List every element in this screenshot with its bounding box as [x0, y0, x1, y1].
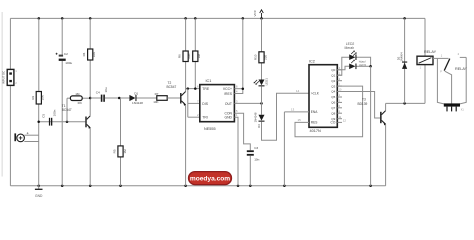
junction bottom rail x238: [237, 185, 240, 188]
svg-text:Q6: Q6: [331, 101, 335, 105]
svg-text:Q0: Q0: [331, 68, 335, 72]
wire contact common P: [445, 71, 452, 104]
diode D2 1N4004: [396, 18, 407, 103]
wire R11 branch: [194, 18, 196, 88]
wire R2 branch: [38, 18, 40, 185]
svg-text:Q5: Q5: [331, 95, 335, 99]
svg-text:1N4004: 1N4004: [400, 52, 404, 62]
wire Q1 to LED2: [337, 57, 349, 75]
op-amp IC2 4017N decade counter: [309, 59, 337, 133]
wire OUT pin3: [234, 102, 261, 104]
op-amp IC1 NE555 timer: [197, 79, 238, 131]
svg-text:IC1: IC1: [206, 79, 212, 83]
svg-text:D3: D3: [257, 124, 261, 128]
wire signal collector to C4: [90, 97, 101, 99]
svg-text:BD139: BD139: [358, 102, 368, 106]
svg-text:R3: R3: [78, 101, 82, 105]
junction bottom rail x38.7: [37, 185, 40, 188]
svg-text:10K: 10K: [92, 52, 96, 57]
junction bottom rail x185.6: [184, 185, 187, 188]
wire D3 to CLK loop: [262, 93, 310, 140]
transistor T2 BC547: [167, 81, 186, 186]
LED LED2 Merah: [345, 42, 357, 60]
node VCC8 junction: [242, 87, 245, 90]
svg-text:10K: 10K: [153, 100, 158, 104]
node OUT junction: [260, 102, 263, 105]
resistor R11 1M: [193, 51, 201, 62]
junction bottom rail x370.6: [369, 185, 372, 188]
wire LED cathodes to ground: [370, 66, 372, 186]
wire VCC+ pin8: [234, 18, 242, 88]
wire T1 base net: [39, 121, 86, 123]
wire TRE net: [186, 88, 200, 90]
wire /RES pin4 wrap: [234, 89, 242, 94]
svg-text:Merah: Merah: [345, 46, 355, 50]
node base junction A: [37, 120, 68, 123]
svg-text:1N4148: 1N4148: [132, 101, 143, 105]
wire T3 collector to relay: [386, 102, 425, 104]
svg-text:NE555: NE555: [204, 127, 216, 131]
svg-text:C4: C4: [96, 90, 100, 94]
capacitor C4 10u: [96, 87, 108, 102]
wire mic top pin: [24, 134, 38, 136]
svg-text:INPUT DC: INPUT DC: [2, 71, 6, 84]
svg-text:BC547: BC547: [62, 108, 72, 112]
junction top rail x195.3: [194, 17, 197, 20]
svg-text:DIS: DIS: [202, 102, 208, 106]
svg-text:Q2: Q2: [331, 79, 335, 83]
svg-text:RELAY: RELAY: [424, 50, 437, 54]
wire ENA pin13: [284, 107, 309, 185]
wire Q0 to LED3: [337, 66, 349, 70]
svg-text:Q7: Q7: [331, 106, 335, 110]
wire LED1 to OUT: [261, 86, 263, 103]
junction bottom rail x62.2: [61, 185, 64, 188]
wire CON pin5 to C3: [234, 113, 250, 150]
svg-text:10n: 10n: [254, 157, 259, 161]
wire IC2 output pin stubs: [337, 67, 346, 123]
wire LED3 cathode: [357, 65, 371, 67]
svg-text:D1: D1: [134, 91, 138, 95]
capacitor C5 100n: [42, 109, 57, 125]
svg-text:R10: R10: [253, 54, 257, 60]
decor left border line: [1, 12, 3, 177]
svg-text:Q4: Q4: [331, 90, 335, 94]
wire TRI-DIS tie: [188, 89, 200, 118]
capacitor C3 10n: [247, 146, 260, 161]
svg-text:15: 15: [298, 118, 302, 122]
svg-text:/RES: /RES: [224, 92, 233, 96]
transistor T3 BD139: [358, 98, 387, 186]
resistor R7 10K: [153, 92, 167, 104]
resistor R3 1M: [67, 92, 90, 122]
svg-text:12: 12: [343, 119, 347, 123]
power VCC symbol: [253, 9, 263, 18]
wire Q4 to T3 base: [337, 92, 380, 119]
junction top rail x261.5: [260, 17, 263, 20]
svg-text:10u: 10u: [104, 87, 108, 92]
ground GND symbol: [35, 186, 43, 198]
relay K1 contact SPDT: [433, 52, 468, 73]
node LED cathode junction: [369, 65, 372, 68]
svg-text:>CLK: >CLK: [311, 92, 320, 96]
junction top rail x185.6: [184, 17, 187, 20]
svg-text:T3: T3: [362, 98, 366, 102]
svg-text:R2: R2: [31, 95, 35, 99]
junction top rail x404.6: [403, 17, 406, 20]
junction top rail x242.8: [242, 17, 245, 20]
resistor R10 220: [253, 52, 267, 63]
svg-text:RES: RES: [311, 121, 318, 125]
svg-text:1M: 1M: [123, 149, 127, 154]
junction bottom rail x90.2: [89, 185, 92, 188]
LED LED1: [254, 78, 269, 87]
svg-text:Q1: Q1: [331, 73, 335, 77]
svg-text:Q3: Q3: [331, 84, 335, 88]
svg-text:moedya.com: moedya.com: [190, 176, 230, 183]
LED LED3 hijau: [349, 59, 366, 69]
wire C4 to D1: [105, 97, 129, 99]
svg-text:TRE: TRE: [202, 87, 210, 91]
wire C2 branch: [61, 18, 63, 185]
wire left edge: [9, 18, 11, 185]
svg-text:C2: C2: [64, 52, 68, 56]
wire R10 branch: [261, 18, 263, 79]
svg-text:1M: 1M: [75, 92, 80, 96]
diode D1 1N4148: [129, 91, 143, 105]
svg-text:10K: 10K: [187, 54, 191, 59]
svg-text:OUT: OUT: [225, 102, 232, 106]
capacitor C2 100u: [56, 52, 73, 65]
svg-text:GND: GND: [35, 194, 43, 198]
wire mic bottom pin: [24, 141, 38, 143]
wire R7 to T2 base: [167, 97, 180, 99]
svg-text:VCC: VCC: [253, 9, 257, 16]
svg-text:C5: C5: [42, 114, 46, 118]
svg-text:TRI: TRI: [202, 116, 208, 120]
svg-text:Q8: Q8: [331, 111, 335, 115]
wire R4 branch: [89, 18, 91, 98]
svg-text:220: 220: [264, 54, 268, 59]
svg-text:1M: 1M: [197, 54, 201, 59]
resistor R2 10K: [31, 92, 45, 105]
junction bottom rail x120.5: [119, 185, 122, 188]
diode D3 1N4148: [253, 103, 264, 127]
junction top rail x90.2: [89, 17, 92, 20]
wire C3 to ground: [249, 156, 251, 186]
resistor R6 10K: [178, 51, 192, 62]
relay K1 coil: [417, 50, 437, 103]
resistor R4 10K: [82, 49, 96, 60]
connector X1 terminal block: [444, 103, 465, 111]
connector X2 INPUT DC: [2, 69, 18, 85]
junction bottom rail x250.3: [249, 185, 252, 188]
svg-text:10K: 10K: [41, 95, 45, 100]
wire CLK pin14 label: [296, 89, 300, 93]
microphone MIC1: [14, 132, 28, 141]
junction top rail x38.8: [38, 17, 41, 20]
wire contact throw S: [437, 58, 446, 104]
svg-text:IC2: IC2: [309, 59, 315, 63]
svg-text:1N4148: 1N4148: [253, 112, 257, 122]
svg-text:GND: GND: [224, 116, 232, 120]
svg-text:14: 14: [296, 89, 300, 93]
decor moedya.com badge: [189, 172, 232, 185]
wire GND pin1: [234, 117, 238, 186]
node TRE junctions: [187, 87, 197, 90]
svg-text:4017N: 4017N: [310, 129, 321, 133]
wire R5 branch: [120, 98, 122, 186]
node C4-D1 junction: [118, 97, 121, 100]
wire RES pin15 loop: [295, 86, 363, 137]
svg-text:R7: R7: [155, 92, 159, 96]
transistor T1 BC547: [62, 98, 91, 186]
wire top VCC rail: [10, 18, 425, 56]
wire D1 to R7: [137, 97, 157, 99]
svg-text:CO: CO: [331, 121, 336, 125]
resistor R5 1M: [112, 146, 127, 157]
svg-text:ENA: ENA: [311, 110, 318, 114]
svg-text:R5: R5: [112, 149, 116, 153]
svg-text:R4: R4: [82, 52, 86, 56]
svg-text:100n: 100n: [53, 109, 57, 116]
svg-text:R6: R6: [178, 54, 182, 58]
svg-text:100u: 100u: [65, 61, 72, 65]
svg-text:13: 13: [291, 107, 295, 111]
junction top rail x62.2: [61, 17, 64, 20]
svg-text:LED1: LED1: [264, 78, 268, 86]
wire LED2 cathode: [357, 57, 371, 66]
wire contact throw O: [458, 57, 466, 104]
node collector-diode junction: [403, 102, 406, 105]
svg-text:C3: C3: [254, 146, 258, 150]
wire bottom ground rail: [10, 185, 385, 187]
junction bottom rail x284.4: [283, 185, 286, 188]
wire R6 branch: [185, 18, 187, 91]
svg-text:BC547: BC547: [167, 85, 177, 89]
svg-text:VCC+: VCC+: [223, 87, 232, 91]
node collector T1: [89, 97, 92, 100]
